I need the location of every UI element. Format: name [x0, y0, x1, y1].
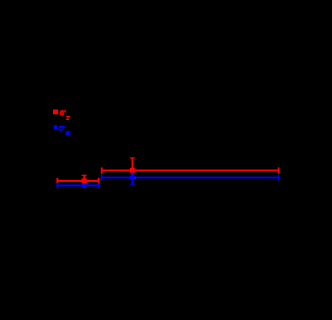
wire: blue vertical error stem lower, right group	[132, 177, 134, 184]
marker: red square data point, left group	[82, 178, 87, 183]
legend label: sigma (red), hand-drawn	[60, 110, 66, 114]
node: red left cap, left group	[56, 178, 58, 183]
wire: blue horizontal range bar, left data group	[57, 184, 98, 186]
node: blue right cap, left group	[98, 183, 100, 188]
node: red right cap, right group	[278, 167, 280, 173]
node: blue right cap, right group	[278, 175, 280, 181]
node: red right cap, left group	[98, 178, 100, 183]
node: red top error cap, right group	[130, 157, 135, 158]
legend label: sigma (blue), hand-drawn	[59, 126, 65, 131]
wire: red horizontal range bar, left data group	[57, 180, 98, 182]
marker: red square data point, right group	[130, 168, 135, 173]
legend marker: red square	[53, 110, 58, 115]
node: red bottom error cap speck, right group	[134, 178, 136, 179]
node: red left cap, right group	[101, 167, 103, 173]
node: blue bottom error cap, right group	[130, 184, 135, 185]
node: blue left cap, left group	[56, 183, 58, 188]
wire: blue horizontal range bar, right data group	[102, 177, 279, 179]
node: blue left cap, right group	[101, 175, 103, 181]
legend label: subscript I (red), hand-drawn serif I	[66, 116, 70, 120]
wire: blue vertical error stem, left group	[83, 185, 85, 188]
wire: blue vertical error stem upper (blends over red), right group	[132, 171, 134, 175]
legend label: asterisk subscript (blue)	[66, 131, 70, 135]
legend marker: blue pentagon	[53, 125, 58, 130]
wire: red vertical error stem, right group	[132, 158, 134, 178]
wire: red horizontal range bar, right data group	[102, 170, 279, 172]
node: red top error cap, left group	[82, 175, 87, 176]
marker: blue pentagon data point, left group	[81, 183, 86, 188]
wire: red vertical error stem, left group	[83, 175, 85, 181]
marker: blue pentagon data point, right group	[129, 174, 135, 180]
